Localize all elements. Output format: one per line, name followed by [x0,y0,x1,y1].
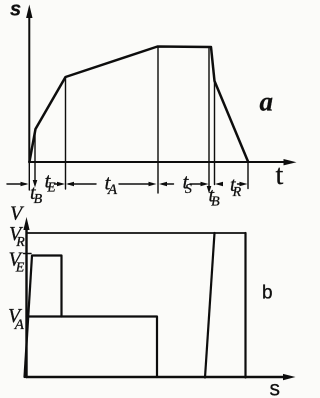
svg-text:a: a [260,87,274,117]
svg-text:t: t [276,160,284,191]
svg-text:b: b [262,283,273,304]
svg-text:s: s [270,378,281,398]
svg-text:s: s [10,0,21,21]
